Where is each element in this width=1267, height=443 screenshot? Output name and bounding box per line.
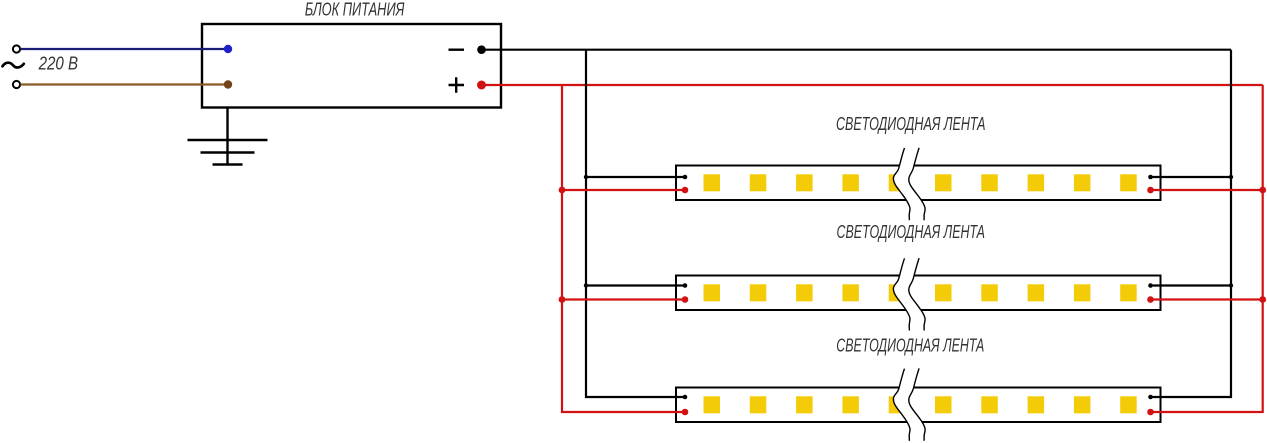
terminal dot blue [224, 45, 232, 53]
svg-text:СВЕТОДИОДНАЯ ЛЕНТА: СВЕТОДИОДНАЯ ЛЕНТА [836, 114, 986, 134]
svg-text:СВЕТОДИОДНАЯ ЛЕНТА: СВЕТОДИОДНАЯ ЛЕНТА [836, 335, 984, 355]
LED strip DS3 body [676, 388, 1161, 423]
strip2 terminal dots [682, 283, 1154, 303]
wire plus left vertical [562, 85, 685, 412]
minus terminal dot [477, 45, 486, 54]
AC source terminal bottom [13, 81, 20, 88]
wire L (blue) [21, 48, 229, 50]
LED strip DS1 body [676, 166, 1161, 201]
LED pads [704, 174, 1137, 191]
junction plus left strip1 [559, 187, 566, 194]
wire minus branch strip2 left [586, 284, 685, 286]
junction minus left strip1 [584, 175, 588, 179]
wire plus right vertical [1151, 85, 1263, 412]
junction minus right strip1 [1229, 175, 1233, 179]
wire plus branch strip1 left [562, 189, 685, 191]
strip3 terminal dots [682, 395, 1154, 416]
wire minus left vertical [586, 50, 685, 397]
wire minus branch strip2 right [1151, 284, 1232, 286]
break symbol strip1 [893, 148, 925, 220]
AC tilde symbol [3, 63, 24, 68]
strip outline [676, 166, 1161, 201]
minus output symbol [449, 49, 465, 51]
break symbol strip2 [893, 258, 925, 330]
svg-text:220 В: 220 В [38, 54, 78, 74]
junction plus right strip1 [1259, 187, 1266, 194]
wire minus trunk top [482, 49, 1232, 51]
junction plus left strip2 [559, 296, 566, 303]
wire minus branch strip1 left [586, 176, 685, 178]
terminal dot brown [224, 80, 232, 88]
wire N (brown) [21, 83, 229, 85]
wire plus branch strip1 right [1151, 189, 1263, 191]
power supply U1 box [202, 24, 501, 108]
plus terminal dot [477, 81, 486, 90]
wire plus branch strip2 left [562, 298, 685, 300]
plus output symbol [449, 77, 465, 93]
wire minus right vertical [1151, 50, 1232, 397]
break symbol strip3 [893, 368, 925, 440]
junction plus right strip2 [1259, 296, 1266, 303]
junction minus left strip2 [584, 283, 588, 287]
wire plus trunk top [482, 84, 1263, 86]
LED strip DS2 body [676, 276, 1161, 311]
ground symbol [188, 108, 268, 165]
svg-text:СВЕТОДИОДНАЯ ЛЕНТА: СВЕТОДИОДНАЯ ЛЕНТА [837, 222, 986, 242]
AC source terminal top [13, 45, 20, 52]
strip1 terminal dots [682, 175, 1154, 194]
wire plus branch strip2 right [1151, 298, 1263, 300]
junction minus right strip2 [1229, 283, 1233, 287]
wire minus branch strip1 right [1151, 176, 1232, 178]
svg-text:БЛОК ПИТАНИЯ: БЛОК ПИТАНИЯ [305, 0, 405, 20]
